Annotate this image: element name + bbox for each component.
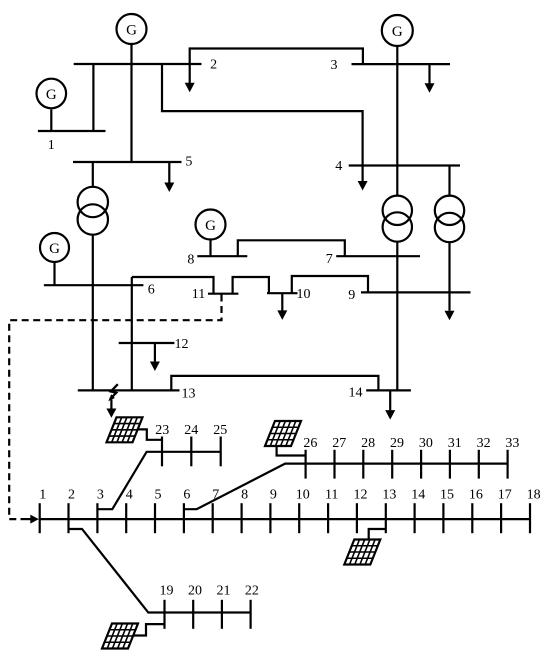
feeder bus tick 1 bbox=[39, 503, 41, 533]
load arrow bus 5 bbox=[168, 162, 170, 183]
branch bus tick 21 bbox=[221, 600, 223, 629]
PV2 wire to bus 26 bbox=[277, 446, 306, 456]
svg-text:20: 20 bbox=[188, 583, 202, 598]
svg-text:13: 13 bbox=[182, 387, 196, 402]
svg-text:11: 11 bbox=[192, 287, 205, 302]
svg-text:6: 6 bbox=[148, 282, 155, 297]
wire line 6-11 riser, line 6-12, line 12-13 bbox=[131, 277, 133, 390]
feeder bus tick 11 bbox=[327, 503, 329, 533]
svg-text:10: 10 bbox=[297, 287, 311, 302]
branch bus tick 29 bbox=[391, 450, 393, 479]
svg-text:12: 12 bbox=[354, 487, 368, 502]
arrowhead fault arrow bbox=[106, 409, 116, 418]
svg-text:17: 17 bbox=[498, 487, 512, 502]
svg-text:1: 1 bbox=[39, 487, 46, 502]
svg-text:30: 30 bbox=[419, 436, 433, 451]
load arrow bus 14 bbox=[389, 390, 391, 410]
generator G at bus 3 bbox=[382, 15, 413, 46]
svg-text:18: 18 bbox=[527, 487, 541, 502]
PV panel 1 near bus 23 bbox=[107, 417, 143, 442]
bus 1 bar bbox=[38, 130, 106, 132]
branch bus tick 19 bbox=[163, 600, 165, 629]
transformer 5-6 bbox=[78, 187, 108, 217]
svg-text:28: 28 bbox=[361, 436, 375, 451]
distribution feeder main line bbox=[40, 518, 530, 520]
feeder bus tick 18 bbox=[529, 503, 531, 533]
branch bus tick 24 bbox=[190, 437, 192, 467]
svg-text:24: 24 bbox=[184, 423, 198, 438]
load arrow bus 4 bbox=[362, 166, 364, 182]
svg-text:15: 15 bbox=[440, 487, 454, 502]
svg-text:31: 31 bbox=[448, 436, 462, 451]
feeder bus tick 8 bbox=[241, 503, 243, 533]
branch bus tick 33 bbox=[507, 450, 509, 479]
feeder bus tick 15 bbox=[442, 503, 444, 533]
feeder bus tick 14 bbox=[414, 503, 416, 533]
svg-text:9: 9 bbox=[270, 487, 277, 502]
branch line to buses 19-22 bbox=[69, 529, 251, 613]
wire line 5-6 lower and line 6-13 bbox=[92, 235, 94, 391]
svg-text:7: 7 bbox=[326, 252, 333, 267]
bus 8 bar bbox=[197, 255, 247, 257]
branch bus tick 22 bbox=[250, 600, 252, 629]
branch line to buses 23-25 bbox=[97, 452, 220, 509]
arrowhead load bus 5 bbox=[164, 183, 174, 193]
svg-text:21: 21 bbox=[217, 583, 231, 598]
load arrow bus 2 bbox=[189, 64, 191, 83]
svg-text:3: 3 bbox=[97, 487, 104, 502]
bus 6 bar bbox=[44, 284, 143, 286]
feeder bus tick 12 bbox=[356, 503, 358, 533]
branch bus tick 32 bbox=[478, 450, 480, 479]
bus 9 bar bbox=[361, 291, 471, 293]
svg-text:1: 1 bbox=[48, 138, 55, 153]
generator G at bus 1 bbox=[37, 79, 67, 109]
svg-text:9: 9 bbox=[348, 288, 355, 303]
feeder bus tick 2 bbox=[67, 503, 69, 533]
arrowhead load bus 3 bbox=[425, 83, 435, 93]
svg-text:7: 7 bbox=[212, 487, 219, 502]
feeder bus tick 3 bbox=[96, 503, 98, 533]
bus 2 bar bbox=[74, 63, 202, 65]
feeder bus tick 5 bbox=[154, 503, 156, 533]
PV4 wire to bus 19 bbox=[133, 624, 165, 635]
feeder bus tick 10 bbox=[298, 503, 300, 533]
svg-text:10: 10 bbox=[296, 487, 310, 502]
arrowhead load bus 10 bbox=[277, 310, 287, 320]
svg-text:G: G bbox=[49, 241, 60, 257]
wire line 10-11 bbox=[233, 277, 269, 294]
bus 11 bar bbox=[208, 293, 238, 295]
wire line 4-7 lower, line 7-9, line 9-14 bbox=[396, 242, 398, 391]
svg-text:13: 13 bbox=[382, 487, 396, 502]
svg-text:29: 29 bbox=[390, 436, 404, 451]
wire G1 stem bbox=[50, 110, 52, 132]
wire line 4-9 upper bbox=[448, 166, 450, 196]
wire line 6-11 bbox=[132, 277, 214, 294]
svg-text:6: 6 bbox=[183, 487, 190, 502]
fault arrow below bolt bbox=[110, 400, 112, 410]
arrowhead load bus 2 bbox=[185, 83, 195, 93]
arrowhead load bus 4 bbox=[358, 181, 368, 191]
load arrow bus 12 bbox=[154, 343, 156, 362]
wire line 4-9 lower through bus 9 bbox=[448, 242, 450, 311]
branch bus tick 20 bbox=[192, 600, 194, 629]
svg-text:33: 33 bbox=[505, 436, 519, 451]
svg-text:G: G bbox=[392, 24, 403, 40]
branch bus tick 30 bbox=[420, 450, 422, 479]
arrowhead feeder source bbox=[30, 515, 39, 524]
feeder bus tick 17 bbox=[500, 503, 502, 533]
bus 12 bar bbox=[119, 342, 175, 344]
svg-text:4: 4 bbox=[335, 159, 342, 174]
bus 14 bar bbox=[366, 389, 411, 391]
branch line to buses 26-33 bbox=[184, 464, 508, 510]
branch bus tick 31 bbox=[449, 450, 451, 479]
svg-text:2: 2 bbox=[68, 487, 75, 502]
feeder bus tick 4 bbox=[125, 503, 127, 533]
load arrow bus 3 bbox=[428, 64, 430, 83]
generator G at bus 2 bbox=[117, 14, 147, 44]
svg-text:32: 32 bbox=[477, 436, 491, 451]
branch bus tick 25 bbox=[220, 437, 222, 467]
dashed tie line bus 11 to feeder bbox=[9, 295, 221, 520]
wire G8 stem bbox=[209, 240, 211, 257]
bus 10 bar bbox=[267, 292, 298, 294]
bus 3 bar bbox=[352, 63, 451, 65]
bus 5 bar bbox=[73, 161, 182, 163]
feeder bus tick 13 bbox=[385, 503, 387, 533]
wire G6 stem bbox=[53, 262, 55, 285]
PV panel 4 near bus 19 bbox=[102, 624, 138, 649]
PV3 wire to bus 13 of feeder bbox=[369, 529, 386, 540]
transformer 4-9 bbox=[435, 196, 464, 225]
svg-text:19: 19 bbox=[160, 583, 174, 598]
feeder bus tick 6 bbox=[183, 503, 185, 533]
arrowhead load bus 9 bbox=[445, 311, 455, 321]
PV panel 2 near bus 26 bbox=[265, 421, 301, 446]
feeder source arrow bbox=[21, 518, 32, 520]
generator G at bus 6 bbox=[40, 233, 69, 262]
wire line 2-4 bbox=[162, 64, 363, 166]
svg-text:G: G bbox=[205, 218, 216, 234]
arrowhead load bus 14 bbox=[385, 410, 395, 420]
svg-text:11: 11 bbox=[325, 487, 338, 502]
svg-text:8: 8 bbox=[187, 252, 194, 267]
svg-text:26: 26 bbox=[303, 436, 317, 451]
svg-text:5: 5 bbox=[185, 155, 192, 170]
branch bus tick 23 bbox=[161, 437, 163, 467]
svg-text:14: 14 bbox=[349, 386, 363, 401]
svg-text:12: 12 bbox=[175, 337, 189, 352]
svg-text:8: 8 bbox=[241, 487, 248, 502]
svg-text:G: G bbox=[126, 23, 137, 39]
branch bus tick 26 bbox=[305, 450, 307, 479]
load arrow bus 10 bbox=[281, 293, 283, 311]
transformer 4-7 bbox=[383, 196, 412, 225]
generator G at bus 8 bbox=[196, 210, 226, 240]
branch bus tick 27 bbox=[333, 450, 335, 479]
branch bus tick 28 bbox=[362, 450, 364, 479]
svg-text:3: 3 bbox=[331, 58, 338, 73]
bus 13 bar bbox=[78, 389, 180, 391]
wire line 7-8 bbox=[238, 240, 345, 256]
arrowhead load bus 12 bbox=[150, 362, 160, 372]
fault lightning bolt at bus 13 bbox=[110, 384, 118, 399]
feeder bus tick 16 bbox=[471, 503, 473, 533]
wire line 1-2 bbox=[92, 64, 94, 131]
arrowhead fault bolt bbox=[108, 394, 115, 401]
wire line 5-6 upper bbox=[92, 162, 94, 187]
svg-text:23: 23 bbox=[155, 423, 169, 438]
svg-text:25: 25 bbox=[213, 423, 227, 438]
PV panel 3 near feeder bus 13 bbox=[344, 540, 380, 565]
svg-text:2: 2 bbox=[210, 57, 217, 72]
svg-text:27: 27 bbox=[332, 436, 346, 451]
wire line 2-3 bbox=[190, 49, 363, 65]
svg-text:14: 14 bbox=[411, 487, 425, 502]
svg-text:22: 22 bbox=[245, 583, 259, 598]
svg-text:G: G bbox=[46, 87, 57, 103]
svg-text:16: 16 bbox=[469, 487, 483, 502]
wire line 9-10 bbox=[292, 276, 368, 293]
wire line 13-14 bbox=[171, 376, 378, 391]
bus 7 bar bbox=[336, 255, 420, 257]
feeder bus tick 9 bbox=[269, 503, 271, 533]
bus 4 bar bbox=[349, 164, 460, 166]
wire G2 stem and line 2-5 bbox=[130, 44, 132, 162]
wire G3 stem, line 3-4, line 4-7 upper bbox=[396, 46, 398, 196]
PV1 wire to bus 23 bbox=[139, 429, 163, 439]
feeder bus tick 7 bbox=[212, 503, 214, 533]
svg-text:4: 4 bbox=[126, 487, 133, 502]
svg-text:5: 5 bbox=[155, 487, 162, 502]
